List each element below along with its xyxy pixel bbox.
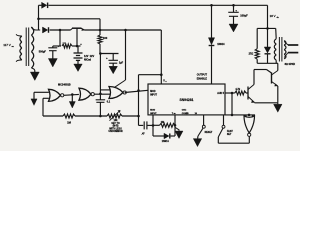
ground under C2	[112, 63, 114, 66]
wire U1b output to U1c input	[94, 93, 110, 95]
transformer T1 primary winding	[16, 34, 22, 36]
gate U1b NOR	[79, 88, 91, 100]
wire V+ vertical from rail3	[160, 30, 162, 75]
wire 12V branch right	[100, 53, 118, 55]
wire Q2 collector riser to Q3 base	[253, 70, 255, 85]
ground at timing network	[175, 131, 183, 139]
node bus junction at 249	[248, 114, 251, 117]
svg-text:100µF: 100µF	[240, 13, 248, 17]
svg-text:SN94281: SN94281	[180, 98, 194, 102]
ground at U1a input	[31, 99, 37, 106]
switch S1 contact	[202, 125, 205, 128]
svg-text:0.1: 0.1	[107, 100, 111, 103]
svg-text:.47: .47	[141, 132, 145, 135]
gate U1d NOR pointing down	[244, 116, 255, 133]
node rail2 drop joins rail3	[99, 29, 102, 32]
wire horn combo top bar	[257, 27, 276, 29]
wire drop x=60 to filter cap row	[59, 30, 61, 46]
svg-text:(M-R): (M-R)	[113, 126, 119, 128]
wire top rail corner down to horn supply	[267, 5, 269, 28]
svg-text:NiCad: NiCad	[84, 58, 92, 61]
svg-text:12V: 12V	[90, 54, 95, 58]
wire R6 to Q2 base	[246, 92, 248, 94]
diode D1 on top rail	[39, 4, 42, 6]
node C3 junction on rail	[99, 115, 102, 118]
wire U1d input stubs	[245, 115, 247, 117]
capacitor C1 500uF	[52, 46, 54, 48]
wire secondary top lead to rail3	[31, 27, 40, 30]
svg-text:RESET: RESET	[205, 132, 213, 134]
ground under battery	[77, 60, 79, 64]
resistor R3 feedback	[63, 114, 75, 118]
ground between gates	[69, 102, 75, 109]
wire U1a output	[64, 93, 79, 96]
svg-text:ENABLE: ENABLE	[197, 77, 208, 80]
wire pin x=175 down	[174, 115, 176, 136]
svg-text:100: 100	[103, 36, 108, 40]
svg-text:18 V: 18 V	[270, 14, 276, 18]
wire C3 bottom to feedback rail	[99, 102, 101, 116]
capacitor C5 100uF	[233, 5, 235, 12]
resistor R6 4.7k	[235, 91, 246, 95]
switch S2 contact	[222, 125, 225, 128]
wire V+ stub into IC	[160, 75, 162, 84]
node bus-rail2 junction	[37, 18, 40, 21]
diode D4 across horn	[267, 28, 269, 47]
wire top rail y=5.3	[49, 4, 268, 6]
node pin junction x=153	[152, 124, 155, 127]
svg-text:+: +	[106, 56, 108, 60]
node junction at x=138.5	[137, 89, 140, 92]
wire U1a bottom input to feedback rail	[43, 97, 49, 99]
wire left bus x=38.5	[38, 5, 40, 30]
transformer T2 core	[278, 37, 280, 62]
wire drop to Q3 collector	[277, 63, 279, 70]
wire rail2 y=18.8	[39, 18, 101, 20]
svg-text:10k: 10k	[114, 120, 119, 122]
wire cap row y=46	[53, 45, 61, 47]
wire ground stub between gates	[71, 95, 73, 102]
wire drop x=138.5 down to coupling cap	[138, 75, 140, 126]
resistor R2 100 ohm	[98, 35, 102, 44]
wire U1c top input stub	[100, 89, 110, 91]
wire S1 pivot to ground	[197, 136, 199, 139]
svg-text:1N914: 1N914	[217, 43, 225, 46]
ground at S1	[193, 139, 202, 147]
svg-text:1M: 1M	[161, 121, 164, 124]
transformer T2 primary	[275, 28, 278, 38]
transformer T2 secondary	[284, 41, 286, 46]
node U1b output junction	[99, 93, 102, 96]
wire horn combo bottom bus	[257, 62, 278, 64]
svg-text:1M: 1M	[67, 120, 71, 124]
wire Q2 emitter to common	[255, 102, 278, 104]
wire to resistor R2	[99, 30, 101, 35]
svg-text:dc: dc	[277, 17, 279, 19]
svg-text:va: va	[174, 113, 176, 115]
wire IC pin to switch S1	[203, 115, 205, 125]
wire 12V vertical feed down to gates	[99, 54, 101, 94]
svg-text:FAST: FAST	[227, 130, 233, 133]
wire IC pin x=153 down	[152, 115, 154, 136]
svg-text:INPUT: INPUT	[150, 113, 157, 115]
svg-text:OUTPUT: OUTPUT	[197, 74, 208, 77]
svg-text:UNCOMMON: UNCOMMON	[108, 131, 122, 133]
transformer T1 secondary winding	[31, 27, 33, 35]
svg-text:117 V: 117 V	[3, 43, 11, 47]
wire secondary bottom lead	[31, 68, 34, 71]
ground stub at timing	[175, 127, 179, 131]
ground under T1 secondary	[34, 71, 36, 73]
transistor Q1 pass transistor	[71, 28, 73, 30]
switch S2 lever	[218, 128, 223, 137]
svg-text:1µF: 1µF	[119, 61, 124, 64]
wire V+ bridge y=74.7	[139, 74, 162, 76]
transistor Q2 driver	[247, 87, 249, 100]
wire base node to battery	[72, 45, 81, 47]
node inter-gate junction	[71, 93, 74, 96]
resistor R1	[62, 44, 72, 48]
transformer T1 core	[25, 28, 27, 67]
wire feedback rail right	[122, 115, 139, 117]
wire bus tap to switch S2	[223, 115, 225, 125]
node top rail tap for C5	[232, 4, 235, 7]
diode D5	[153, 135, 164, 137]
wire drop x=125.5 to gate U1c	[125, 30, 127, 80]
wire feedback rail middle	[75, 115, 107, 117]
wire rail3 to pass transistor	[50, 29, 71, 31]
svg-text:4.7k: 4.7k	[235, 88, 240, 91]
wire feedback rail y=116 left	[43, 115, 63, 117]
node 12V node	[99, 52, 102, 55]
gate U1a NOR	[49, 89, 61, 101]
svg-text:SET TO: SET TO	[111, 123, 119, 125]
node rail3 tap for oscillator	[124, 29, 127, 32]
svg-text:INPUT: INPUT	[150, 95, 157, 97]
wire U1a top input to ground	[34, 91, 49, 93]
svg-text:ac: ac	[12, 46, 14, 48]
capacitor C4 coupling	[143, 121, 145, 129]
IC U2 box	[148, 84, 225, 115]
wire audio out drop to bus	[231, 93, 233, 115]
resistor R7	[160, 123, 176, 127]
wire coupling cap run	[139, 124, 144, 126]
svg-text:+: +	[58, 44, 60, 48]
svg-text:8Ω SPKR: 8Ω SPKR	[285, 63, 296, 66]
diode D2 on rail3	[43, 27, 48, 33]
wire U1c output to IC audio input	[125, 90, 148, 92]
ground under C5	[233, 16, 235, 24]
svg-text:AUD 5: AUD 5	[217, 92, 224, 95]
ground under C1	[52, 51, 54, 59]
wire Q3 emitter down	[277, 86, 279, 103]
wire D3 to IC top	[211, 46, 213, 84]
wire cap to IC pin	[147, 124, 153, 126]
svg-text:500µF: 500µF	[39, 50, 47, 53]
node top rail tap for enable	[210, 4, 213, 7]
svg-text:MOD: MOD	[150, 91, 156, 93]
wire output enable vertical	[211, 5, 213, 37]
wire rail2 corner down to rail3	[99, 19, 101, 30]
node D2 output junction	[59, 29, 62, 32]
node audio out junction	[231, 92, 234, 95]
svg-text:SET: SET	[227, 134, 232, 136]
speaker leads	[284, 42, 288, 46]
wire rail3 right of Q1	[85, 29, 162, 31]
gate U1c NOR	[109, 87, 123, 99]
switch S1 lever	[198, 128, 203, 136]
node horn supply junction	[266, 27, 269, 30]
node V+ junction	[160, 73, 163, 76]
node feedback joins drop	[137, 115, 140, 118]
svg-text:+: +	[80, 43, 82, 46]
capacitor C3 0.1uF	[99, 94, 101, 100]
svg-text:WITH LESS: WITH LESS	[109, 128, 122, 130]
svg-text:1N914: 1N914	[162, 140, 170, 143]
wire R7 left tie	[153, 124, 160, 126]
svg-text:s: s	[166, 81, 167, 83]
resistor R5 damping	[256, 28, 258, 48]
battery B1 12V NiCad	[77, 46, 79, 53]
wire R2 to 12V node	[99, 44, 101, 54]
wire IC audio output	[225, 92, 235, 94]
capacitor C2 1uF	[112, 54, 114, 61]
potentiometer R4	[107, 114, 122, 118]
node R7 right junction	[174, 124, 177, 127]
node bus junction at 232	[231, 114, 234, 117]
node base junction	[76, 45, 79, 48]
svg-text:27Ω: 27Ω	[249, 52, 254, 55]
wire bottom bus extension	[225, 114, 255, 116]
transistor Q3 output	[271, 73, 273, 84]
wire S2 pivot loop to U1d output	[217, 137, 219, 143]
wire Q1 base down to node	[76, 28, 78, 46]
svg-text:MOD: MOD	[150, 110, 155, 112]
diode D3	[208, 38, 214, 45]
svg-text:MC14001B: MC14001B	[58, 83, 71, 87]
ground at output stage	[277, 103, 279, 104]
svg-text:OSC: OSC	[182, 110, 187, 112]
